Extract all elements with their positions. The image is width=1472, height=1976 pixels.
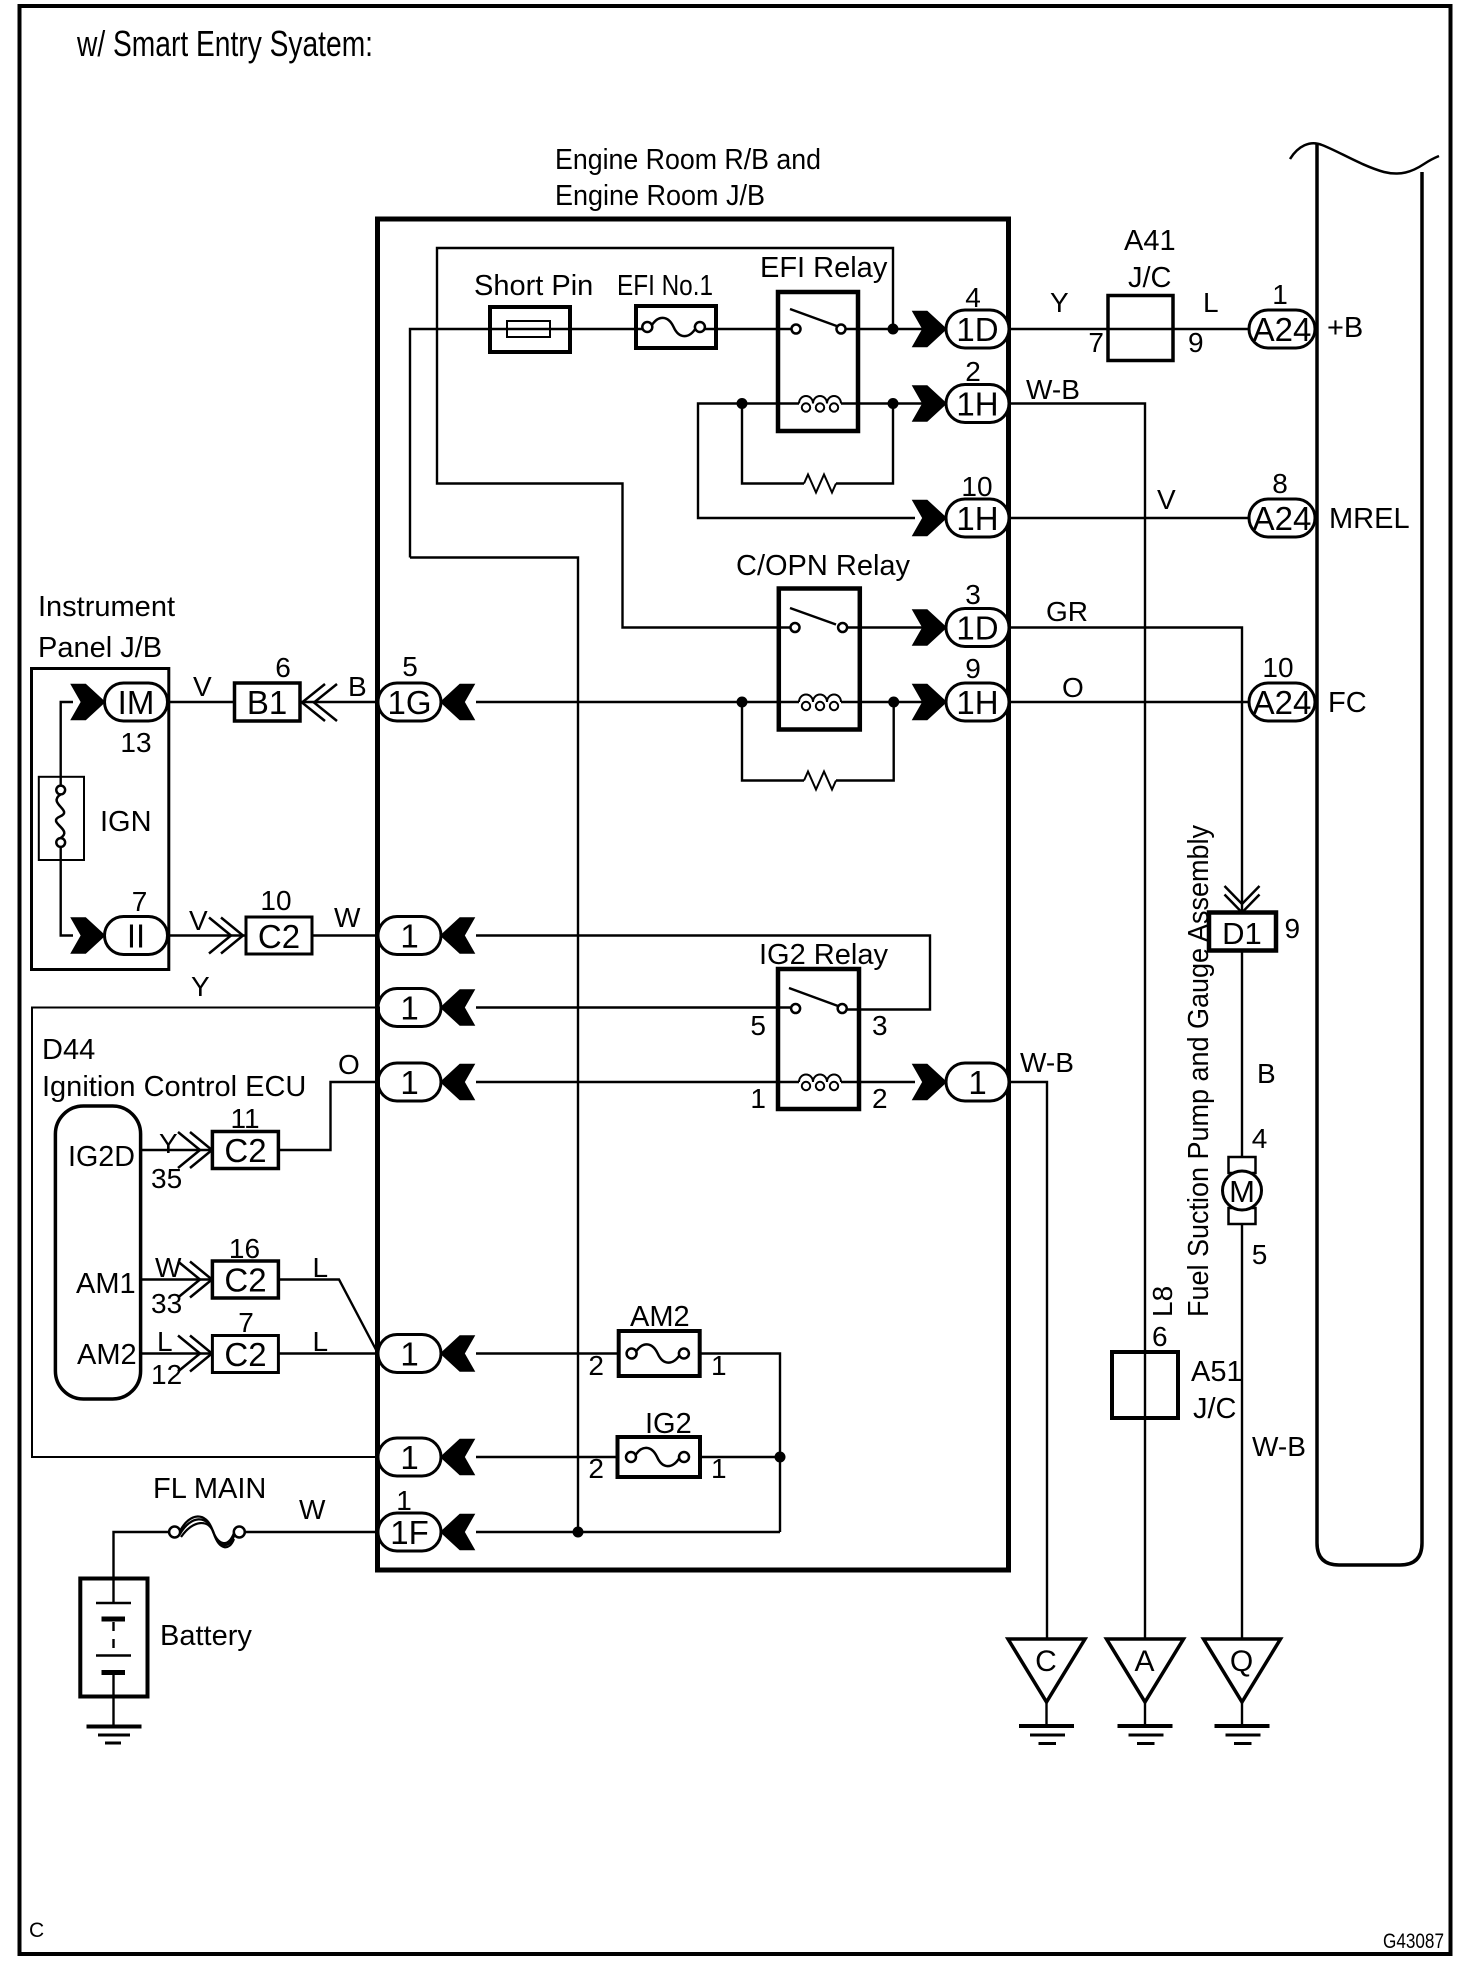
svg-text:7: 7 xyxy=(1088,327,1104,358)
connector II pin 7 xyxy=(72,886,168,955)
svg-text:7: 7 xyxy=(132,886,148,917)
svg-text:AM1: AM1 xyxy=(76,1268,136,1300)
svg-text:C: C xyxy=(1035,1645,1057,1678)
wire B: 1G to B1 xyxy=(300,701,378,703)
svg-text:Battery: Battery xyxy=(160,1620,252,1652)
svg-text:2: 2 xyxy=(588,1453,604,1484)
wire GR: 1D pin3 down to D1 xyxy=(1009,628,1242,913)
svg-text:12: 12 xyxy=(151,1359,182,1390)
svg-text:AM2: AM2 xyxy=(630,1301,690,1333)
double chevron at B1 xyxy=(302,684,325,721)
connector 1D pin 4 xyxy=(913,282,1009,348)
wire: AM2 fuse to junction riser xyxy=(700,1354,780,1533)
connector 1 (W wire) xyxy=(378,917,474,955)
svg-text:6: 6 xyxy=(275,652,291,683)
svg-text:L: L xyxy=(313,1326,329,1357)
svg-text:Fuel Suction Pump and Gauge As: Fuel Suction Pump and Gauge Assembly xyxy=(1183,825,1215,1317)
svg-text:C2: C2 xyxy=(224,1132,266,1169)
svg-text:6: 6 xyxy=(1152,1321,1168,1352)
svg-text:MREL: MREL xyxy=(1329,503,1410,535)
svg-text:11: 11 xyxy=(230,1103,259,1134)
resistor parallel with C/OPN relay coil xyxy=(742,702,894,790)
wire O: C2 pin11 up to 1(O) xyxy=(278,1082,378,1150)
svg-text:1: 1 xyxy=(750,1083,766,1114)
svg-text:7: 7 xyxy=(238,1307,254,1338)
svg-text:W-B: W-B xyxy=(1026,374,1080,405)
svg-text:C2: C2 xyxy=(258,918,300,955)
svg-text:Instrument: Instrument xyxy=(38,591,175,623)
double chevron at C2 pin7 xyxy=(190,1336,212,1372)
junction C/OPN coil-right xyxy=(888,697,899,708)
svg-text:AM2: AM2 xyxy=(77,1339,137,1371)
junction 1F riser xyxy=(573,1527,584,1538)
svg-text:O: O xyxy=(338,1049,360,1080)
connector 1 (IG2 wire) xyxy=(378,1438,474,1476)
svg-text:Y: Y xyxy=(191,971,210,1002)
svg-text:Short Pin: Short Pin xyxy=(474,270,593,302)
connector C2 pin 11 xyxy=(212,1103,278,1169)
svg-text:B: B xyxy=(348,671,367,702)
connector 1H pin 10 xyxy=(913,471,1009,537)
svg-text:D1: D1 xyxy=(1222,916,1262,951)
resistor parallel with EFI relay coil xyxy=(742,404,893,493)
wire: 1G to C/OPN coil xyxy=(476,701,799,703)
relay C/OPN Relay xyxy=(736,550,911,730)
svg-text:1: 1 xyxy=(400,1336,418,1373)
double chevron at C2 pin10 xyxy=(221,918,243,954)
wire: C/OPN switch out to 1D pin3 xyxy=(847,626,946,628)
connector C2 pin 10 xyxy=(246,885,312,955)
wire: 1(W) loop to IG2 relay switch pin3 xyxy=(476,936,930,1010)
Instrument Panel J/B box xyxy=(32,669,169,970)
junction coil-right xyxy=(888,398,899,409)
svg-text:A41: A41 xyxy=(1124,225,1176,257)
ground C xyxy=(1008,1639,1085,1744)
wire: 1F feed to fuse riser xyxy=(476,1531,780,1533)
svg-text:Y: Y xyxy=(1050,287,1069,318)
svg-text:1: 1 xyxy=(1272,279,1288,310)
fuse EFI No.1 xyxy=(617,270,716,348)
svg-text:9: 9 xyxy=(1285,913,1301,944)
svg-text:FL MAIN: FL MAIN xyxy=(153,1473,266,1505)
svg-text:1: 1 xyxy=(400,1439,418,1476)
svg-text:J/C: J/C xyxy=(1193,1393,1237,1425)
connector A24 pin 8 (MREL) xyxy=(1249,468,1410,537)
wire L: C2 pin16 diagonal to 1(L) xyxy=(278,1280,378,1354)
svg-text:C/OPN Relay: C/OPN Relay xyxy=(736,550,911,582)
svg-text:1H: 1H xyxy=(956,500,998,537)
svg-text:C: C xyxy=(29,1919,44,1942)
svg-text:C2: C2 xyxy=(224,1336,266,1373)
wire V: IM to B1 xyxy=(168,701,235,703)
svg-text:A: A xyxy=(1134,1645,1154,1678)
connector 1F pin 1 xyxy=(378,1485,474,1551)
connector C2 pin 7 xyxy=(212,1307,278,1373)
svg-text:EFI No.1: EFI No.1 xyxy=(617,270,713,302)
svg-text:1D: 1D xyxy=(956,311,998,348)
connector 1 (W-B out right) xyxy=(913,1063,1009,1101)
svg-text:2: 2 xyxy=(588,1350,604,1381)
svg-text:9: 9 xyxy=(965,653,981,684)
connector 1 (L wire) xyxy=(378,1335,474,1373)
connector B1 pin 6 xyxy=(235,652,301,721)
svg-text:B: B xyxy=(1257,1058,1276,1089)
wire W-B: to ground C xyxy=(1009,1082,1047,1638)
svg-text:IGN: IGN xyxy=(100,806,152,838)
relay EFI Relay xyxy=(760,252,888,431)
junction at EFI relay output xyxy=(888,324,899,335)
svg-text:13: 13 xyxy=(120,727,151,758)
connector A24 pin 1 (+B) xyxy=(1249,279,1363,348)
wire L: C2 pin7 to 1(L) xyxy=(278,1352,378,1354)
connector 1 (Y wire) xyxy=(378,989,474,1027)
svg-text:V: V xyxy=(1157,484,1176,515)
svg-text:w/ Smart Entry Syatem:: w/ Smart Entry Syatem: xyxy=(76,23,373,64)
shield wire harness right xyxy=(1317,143,1422,1565)
connector 1H pin 9 xyxy=(913,653,1009,721)
svg-text:3: 3 xyxy=(965,579,981,610)
svg-text:1: 1 xyxy=(400,990,418,1027)
svg-text:1: 1 xyxy=(400,918,418,955)
double chevron at D1 (down) xyxy=(1225,886,1260,904)
connector IM pin 13 xyxy=(72,683,168,758)
wire L: AM2 pin12 to C2 pin7 xyxy=(141,1352,213,1354)
svg-text:W-B: W-B xyxy=(1252,1431,1306,1462)
wire W: C2 pin10 to 1 xyxy=(312,934,378,936)
svg-text:1F: 1F xyxy=(390,1514,429,1551)
svg-text:A24: A24 xyxy=(1253,500,1312,537)
junction coil-left xyxy=(737,398,748,409)
wire: EFI relay out loop up-over-down to C/OPN relay switch xyxy=(437,248,893,628)
wire: 1(L) to AM2 fuse xyxy=(476,1352,619,1354)
double chevron at C2 pin11 xyxy=(190,1132,212,1168)
svg-text:GR: GR xyxy=(1046,596,1088,627)
svg-text:9: 9 xyxy=(1188,327,1204,358)
svg-text:G43087: G43087 xyxy=(1383,1930,1444,1953)
ground Q xyxy=(1204,1639,1281,1744)
wire: EFI relay coil left to 1H pin10 path xyxy=(698,404,915,519)
junction AM2/IG2 feed xyxy=(775,1452,786,1463)
svg-text:EFI Relay: EFI Relay xyxy=(760,252,888,284)
connector C2 pin 16 xyxy=(212,1233,278,1299)
svg-text:1: 1 xyxy=(968,1064,986,1101)
relay IG2 Relay xyxy=(750,939,888,1114)
svg-text:Q: Q xyxy=(1230,1645,1253,1678)
wire O: 1H pin9 to A24 pin10 xyxy=(1009,701,1249,703)
svg-text:C2: C2 xyxy=(224,1262,266,1299)
svg-text:5: 5 xyxy=(1252,1239,1268,1270)
svg-text:A51: A51 xyxy=(1191,1356,1243,1388)
ground A xyxy=(1107,1639,1184,1744)
wire: IG2 relay coil to 1 (W-B out) xyxy=(841,1081,915,1083)
wire: EFI relay switch out to 1D pin4 xyxy=(846,328,946,330)
svg-text:+B: +B xyxy=(1327,312,1363,344)
svg-text:1: 1 xyxy=(400,1064,418,1101)
double chevron at C2 pin16 xyxy=(190,1262,212,1298)
svg-text:L: L xyxy=(1203,287,1219,318)
connector 1H pin 2 xyxy=(913,356,1009,423)
svg-text:J/C: J/C xyxy=(1128,262,1172,294)
wire B: D1 to pump motor xyxy=(1241,951,1243,1158)
svg-text:1D: 1D xyxy=(956,610,998,647)
svg-text:Y: Y xyxy=(159,1128,178,1159)
svg-text:10: 10 xyxy=(260,885,291,916)
svg-text:10: 10 xyxy=(1262,652,1293,683)
wave break at top of shield xyxy=(1290,143,1439,173)
Short Pin xyxy=(474,270,593,352)
fuse AM2 xyxy=(588,1301,726,1381)
connector D1 pin 9 xyxy=(1209,913,1300,952)
wire: battery to FL MAIN xyxy=(114,1532,170,1578)
svg-text:W-B: W-B xyxy=(1020,1047,1074,1078)
svg-text:1: 1 xyxy=(396,1485,412,1516)
D44 Ignition Control ECU box xyxy=(32,1008,379,1458)
wire O: 1(O) to IG2 relay coil xyxy=(476,1081,799,1083)
fusible link FL MAIN xyxy=(169,1516,245,1547)
wire W-B: motor to ground Q xyxy=(1241,1224,1243,1638)
wire Y on D44 box top edge to IG2 relay pin5 xyxy=(476,1006,791,1008)
wire W-B: 1H pin2 down to ground A xyxy=(1009,404,1145,1639)
svg-text:5: 5 xyxy=(750,1010,766,1041)
svg-text:II: II xyxy=(127,918,145,955)
svg-text:2: 2 xyxy=(965,356,981,387)
svg-text:V: V xyxy=(193,671,212,702)
svg-text:8: 8 xyxy=(1272,468,1288,499)
svg-text:W: W xyxy=(299,1494,326,1525)
wire W: FL MAIN to 1F xyxy=(245,1531,378,1533)
svg-text:1H: 1H xyxy=(956,684,998,721)
wire: main feed from 1F riser to Short Pin line xyxy=(410,329,642,558)
connector 1D pin 3 xyxy=(913,579,1009,647)
svg-text:3: 3 xyxy=(872,1010,888,1041)
wire: IG2 fuse to junction xyxy=(700,1456,780,1458)
junction block A41 J/C xyxy=(1088,225,1203,361)
svg-text:33: 33 xyxy=(151,1288,182,1319)
wire Y: IG2D pin35 to C2 pin11 xyxy=(141,1149,213,1151)
fuse IGN xyxy=(39,777,152,860)
svg-text:2: 2 xyxy=(872,1083,888,1114)
junction block A51 J/C xyxy=(1112,1352,1243,1425)
ground battery xyxy=(87,1727,142,1744)
svg-text:IG2 Relay: IG2 Relay xyxy=(759,939,888,971)
svg-text:L: L xyxy=(157,1326,173,1357)
svg-text:A24: A24 xyxy=(1253,684,1312,721)
svg-text:O: O xyxy=(1062,672,1084,703)
wire: 1(IG2) to IG2 fuse xyxy=(476,1456,618,1458)
svg-text:Engine Room J/B: Engine Room J/B xyxy=(555,180,765,212)
svg-text:FC: FC xyxy=(1328,687,1367,719)
svg-text:B1: B1 xyxy=(247,684,287,721)
svg-text:L8: L8 xyxy=(1147,1286,1178,1317)
wire: EFI relay coil right to 1H pin2 xyxy=(841,402,946,404)
wire: C/OPN coil right to 1H pin9 xyxy=(841,701,946,703)
connector A24 pin 10 (FC) xyxy=(1249,652,1367,721)
battery xyxy=(80,1579,252,1726)
svg-text:V: V xyxy=(189,905,208,936)
svg-text:10: 10 xyxy=(961,471,992,502)
wire W: AM1 pin33 to C2 pin16 xyxy=(141,1278,213,1280)
svg-text:4: 4 xyxy=(965,282,981,313)
motor M fuel pump xyxy=(1223,1157,1262,1224)
fuse IG2 xyxy=(588,1408,726,1484)
svg-text:Engine Room R/B and: Engine Room R/B and xyxy=(555,144,821,176)
wire Y: 1D to A41 to A24 xyxy=(1009,328,1249,330)
wire V: II to C2 pin10 xyxy=(168,934,247,936)
connector 1G pin 5 xyxy=(378,651,474,721)
svg-text:1G: 1G xyxy=(387,684,431,721)
wire V: 1H pin10 to A24 pin8 xyxy=(1009,517,1249,519)
svg-text:M: M xyxy=(1229,1174,1255,1209)
Engine Room R/B and J/B box xyxy=(378,219,1009,1570)
svg-text:4: 4 xyxy=(1252,1123,1268,1154)
junction C/OPN coil-left xyxy=(737,697,748,708)
svg-text:1H: 1H xyxy=(956,386,998,423)
svg-text:IM: IM xyxy=(118,684,155,721)
svg-text:Panel J/B: Panel J/B xyxy=(38,632,162,664)
svg-text:5: 5 xyxy=(402,651,418,682)
svg-text:L: L xyxy=(313,1252,329,1283)
wire: EFI No.1 fuse to EFI relay switch xyxy=(705,328,791,330)
svg-text:A24: A24 xyxy=(1253,311,1312,348)
svg-text:W: W xyxy=(155,1252,182,1283)
svg-text:IG2D: IG2D xyxy=(68,1141,135,1173)
connector 1 (O wire) xyxy=(378,1063,474,1101)
svg-text:Ignition Control ECU: Ignition Control ECU xyxy=(42,1071,306,1103)
svg-text:D44: D44 xyxy=(42,1034,95,1066)
wire: IM to IGN fuse to II inside J/B xyxy=(61,702,73,785)
svg-text:W: W xyxy=(334,902,361,933)
svg-text:35: 35 xyxy=(151,1163,182,1194)
